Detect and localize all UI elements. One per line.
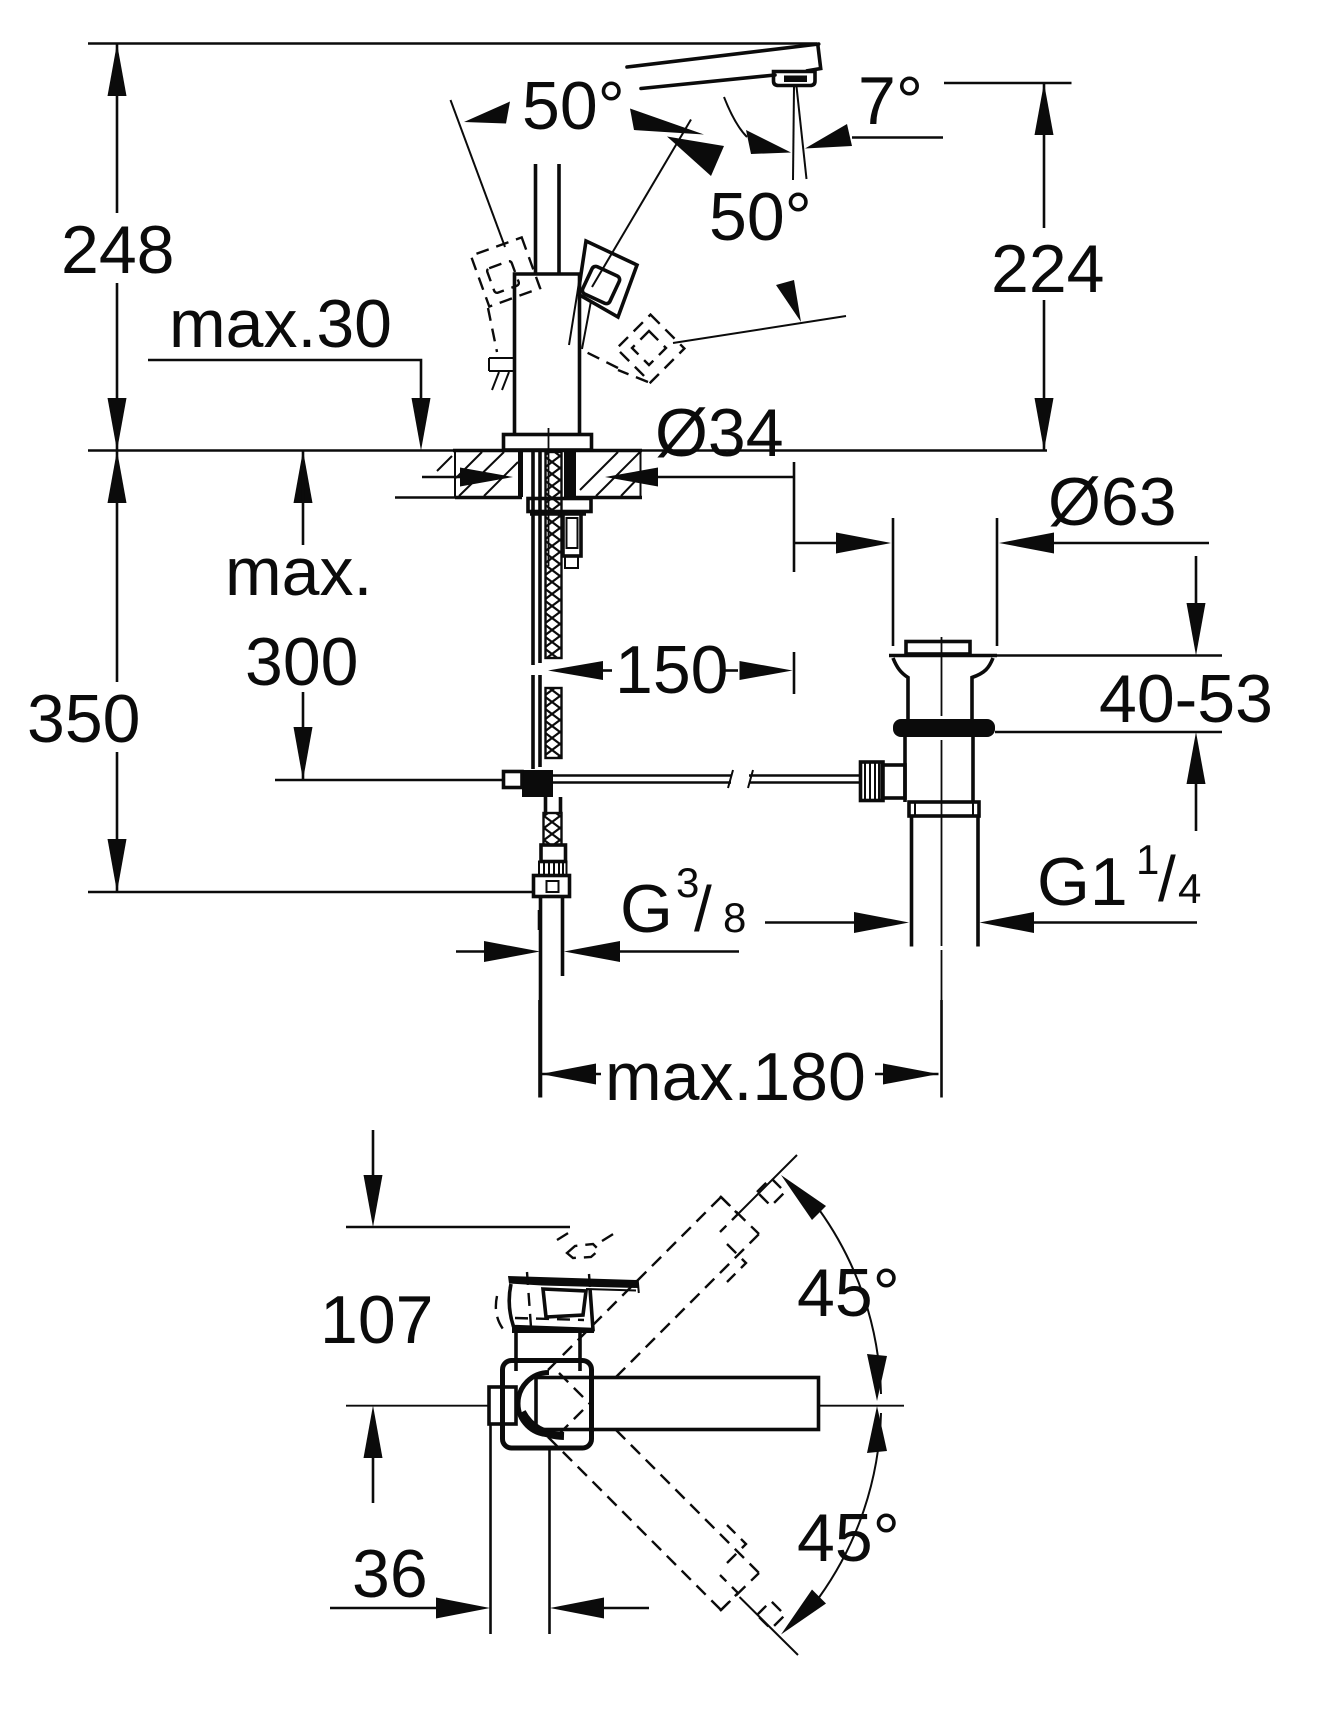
dimension 248 arrow down bbox=[108, 398, 127, 451]
threaded shank lower bbox=[546, 688, 562, 758]
45° upper extension line bbox=[739, 1155, 797, 1213]
faucet body bbox=[515, 274, 580, 435]
deck hatching left bbox=[437, 452, 518, 496]
dimension Ø63 extension lines bbox=[892, 518, 895, 646]
centerline bbox=[548, 428, 550, 566]
dashed handle lower-right outer bbox=[617, 315, 685, 383]
dimension 40-53 arrows bbox=[1195, 556, 1198, 606]
dimension 40-53 reference lines bbox=[997, 654, 1222, 657]
7° angle arc bbox=[724, 97, 747, 137]
dimension G1 1/4 bbox=[765, 921, 856, 924]
50° cross arrow B bbox=[667, 137, 724, 177]
grip dashed overlay bbox=[496, 1272, 593, 1329]
dimension max.30 arrow down bbox=[412, 398, 431, 451]
deck right edge bbox=[640, 451, 642, 498]
45° lower arrow at line bbox=[781, 1590, 826, 1635]
dimension 248 top reference line bbox=[88, 42, 817, 45]
45° lower arc bbox=[819, 1413, 881, 1598]
dimension 224 vertical line bbox=[1043, 83, 1046, 228]
svg-text:248: 248 bbox=[61, 212, 174, 288]
50° left leader line bbox=[451, 100, 506, 247]
dimension Ø63 arrows bbox=[794, 542, 838, 545]
threaded shank upper bbox=[546, 452, 562, 658]
escutcheon square bbox=[503, 1361, 592, 1449]
svg-text:300: 300 bbox=[245, 624, 358, 700]
spout grip trapezoid bbox=[509, 1284, 593, 1330]
svg-text:107: 107 bbox=[320, 1282, 433, 1358]
drain lower ring bbox=[909, 802, 979, 816]
svg-text:45°: 45° bbox=[797, 1500, 900, 1576]
rod break ticks bbox=[728, 770, 753, 788]
dashed lever down 45° bbox=[548, 1373, 759, 1610]
countertop deck top line bbox=[88, 449, 1047, 452]
dimension max.180 bbox=[538, 1000, 541, 1098]
riser pipes bbox=[534, 164, 538, 274]
dashed marks above bar bbox=[557, 1230, 618, 1241]
dashed handle upper-left inner bbox=[486, 260, 519, 293]
base flange bbox=[504, 435, 592, 451]
dimension max.30 leader bbox=[148, 360, 421, 398]
dimension 36 bbox=[330, 1607, 438, 1610]
dimension 350 arrow down bbox=[108, 839, 127, 892]
dashed handle 50° arrow bbox=[776, 280, 801, 322]
dimension Ø34 line bbox=[422, 476, 462, 479]
dimension 107 lower arrow bbox=[364, 1406, 383, 1459]
svg-text:40-53: 40-53 bbox=[1099, 661, 1273, 737]
deck hatching right bbox=[580, 452, 641, 496]
svg-text:7°: 7° bbox=[858, 63, 923, 139]
dashed handle upper-left outer bbox=[471, 237, 540, 306]
mounting hole right edge (black bar) bbox=[564, 451, 576, 497]
countertop deck bottom line bbox=[395, 496, 455, 499]
drain flange bbox=[889, 654, 997, 658]
svg-text:1: 1 bbox=[1136, 836, 1159, 883]
svg-text:8: 8 bbox=[723, 894, 746, 941]
svg-text:224: 224 bbox=[991, 231, 1104, 307]
dimension 107 top reference line bbox=[346, 1226, 570, 1229]
45° upper arc bbox=[819, 1210, 881, 1395]
drain gasket bbox=[893, 719, 995, 737]
svg-text:36: 36 bbox=[352, 1536, 428, 1612]
svg-text:150: 150 bbox=[615, 632, 728, 708]
45° upper arrow at line bbox=[781, 1175, 826, 1220]
svg-text:Ø63: Ø63 bbox=[1048, 464, 1177, 540]
side outlet bracket bbox=[563, 513, 581, 556]
dashed lever up 45° bbox=[548, 1197, 759, 1434]
svg-text:50°: 50° bbox=[709, 179, 812, 255]
dimension 350 vertical line bbox=[116, 451, 119, 683]
grip inner face bbox=[543, 1289, 586, 1317]
deck left edge bbox=[454, 451, 456, 498]
dimension 224 top reference line bbox=[944, 82, 1072, 85]
dashed lever down tip tab bbox=[757, 1601, 785, 1629]
supply hose upper left lines bbox=[531, 452, 535, 665]
drain lever port bbox=[882, 765, 905, 798]
hose nut bbox=[534, 876, 570, 897]
spout bbox=[627, 44, 819, 67]
mounting hole left edge bbox=[518, 451, 523, 497]
dimension max300 bottom reference line bbox=[275, 779, 504, 782]
body top view bbox=[516, 1332, 580, 1371]
pop-up plug bbox=[906, 642, 970, 655]
pop-up rod end cap bbox=[504, 772, 523, 788]
svg-text:4: 4 bbox=[1178, 865, 1201, 912]
dashed handle lower-right inner bbox=[632, 331, 666, 365]
shank below tee bbox=[546, 797, 561, 813]
svg-text:350: 350 bbox=[27, 681, 140, 757]
pop-up rod tee joint bbox=[522, 770, 553, 797]
spout outlet extension line bbox=[793, 462, 796, 572]
50° left arrow bbox=[464, 102, 510, 124]
dimension max300 arrow down bbox=[302, 692, 305, 780]
pop-up horizontal rod bbox=[553, 776, 861, 783]
drain tailpipe bbox=[910, 816, 914, 947]
handle grip inner square bbox=[581, 265, 621, 305]
faucet body left tab bbox=[489, 358, 516, 390]
svg-text:50°: 50° bbox=[522, 68, 625, 144]
dimension G3/8 arrows bbox=[456, 950, 486, 953]
supply lines below bbox=[489, 1424, 492, 1634]
drain body bbox=[905, 737, 973, 802]
7° arrow left bbox=[746, 130, 791, 154]
svg-text:G1: G1 bbox=[1037, 844, 1128, 920]
7° arrow right bbox=[805, 124, 852, 149]
dashed handle stem bbox=[488, 308, 497, 352]
supply hose lower bbox=[539, 897, 543, 1098]
dashed handle 50° leader line bbox=[673, 316, 846, 343]
aerator bbox=[774, 72, 816, 86]
45° lower extension line bbox=[740, 1597, 799, 1655]
dimension 248 arrow up bbox=[108, 44, 127, 97]
svg-text:Ø34: Ø34 bbox=[655, 395, 784, 471]
dimension 107 upper arrow bbox=[372, 1130, 375, 1177]
45° upper arrow at centerline bbox=[867, 1354, 887, 1401]
water stream lines bbox=[793, 87, 794, 181]
hose knurl bbox=[539, 862, 567, 876]
dashed handle lower stems bbox=[586, 352, 648, 382]
dimension 150 bbox=[548, 661, 603, 680]
drain knurled knob bbox=[861, 762, 884, 801]
side stub square bbox=[489, 1387, 516, 1424]
dimension 350 bottom reference line bbox=[88, 891, 533, 894]
handle lever horizontal bbox=[536, 1378, 819, 1430]
45° lower arrow at centerline bbox=[867, 1406, 887, 1453]
7° leader line bbox=[852, 136, 943, 139]
handle grip solid bbox=[578, 241, 637, 317]
dimension 248 vertical line bbox=[116, 44, 119, 214]
svg-text:max.180: max.180 bbox=[605, 1039, 866, 1115]
svg-text:/: / bbox=[1158, 843, 1176, 915]
view centerline bbox=[346, 1405, 490, 1407]
50° cross arrow A bbox=[630, 109, 704, 135]
cartridge dome bbox=[518, 1373, 549, 1435]
washer under deck bbox=[528, 499, 591, 512]
svg-text:/: / bbox=[694, 873, 712, 945]
50° right leader line bbox=[592, 120, 691, 288]
svg-text:G: G bbox=[620, 871, 673, 947]
dashed lever down tip chevrons bbox=[720, 1525, 746, 1611]
hose collar bbox=[541, 845, 566, 862]
handle stem lines bbox=[569, 295, 591, 349]
spout top-view bar bbox=[508, 1276, 638, 1288]
drain centerline bbox=[941, 637, 943, 1098]
svg-text:max.30: max.30 bbox=[169, 286, 392, 362]
dimension 350 arrow up bbox=[108, 451, 127, 504]
dashed lever up tip chevrons bbox=[720, 1196, 746, 1282]
svg-text:45°: 45° bbox=[797, 1255, 900, 1331]
svg-text:max.: max. bbox=[225, 534, 372, 610]
dashed lever up tip tab bbox=[757, 1178, 785, 1206]
dimension max300 arrow up bbox=[294, 451, 313, 504]
